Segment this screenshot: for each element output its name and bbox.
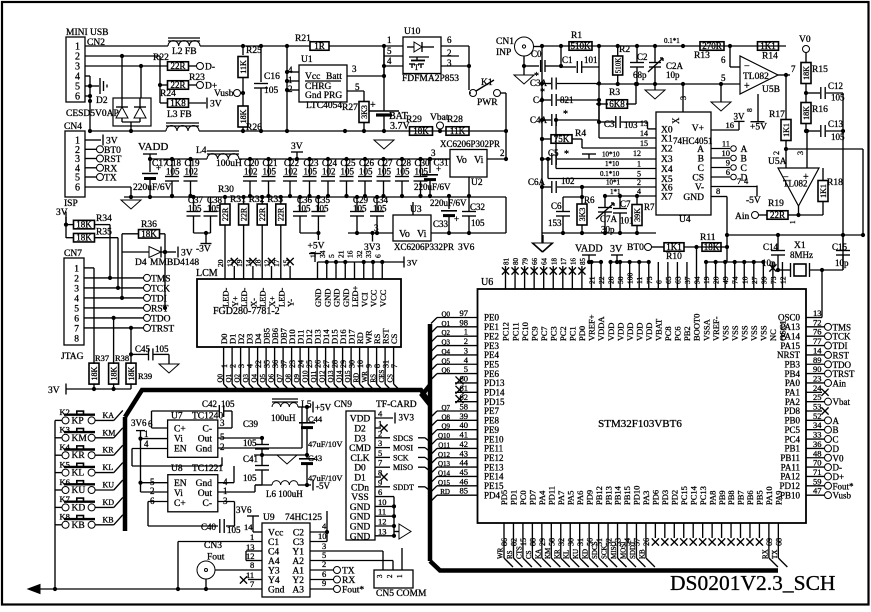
svg-text:1K8: 1K8	[170, 98, 186, 108]
svg-text:58: 58	[548, 538, 557, 546]
svg-text:105: 105	[166, 167, 180, 177]
svg-text:R1: R1	[571, 31, 582, 41]
svg-text:18K: 18K	[413, 126, 429, 136]
svg-text:VDD: VDD	[625, 323, 635, 341]
svg-text:Vo: Vo	[456, 155, 467, 166]
svg-text:4: 4	[74, 294, 79, 304]
svg-text:13: 13	[378, 526, 387, 536]
svg-text:3V6: 3V6	[131, 418, 147, 428]
svg-text:VSS: VSS	[351, 493, 368, 503]
svg-text:TX: TX	[104, 174, 117, 184]
ground CN1	[523, 56, 525, 75]
svg-text:TRST: TRST	[151, 324, 174, 334]
svg-text:PD4: PD4	[484, 490, 501, 500]
svg-text:Vbat: Vbat	[430, 113, 449, 123]
resistor R35 18K	[74, 233, 95, 242]
svg-text:D3: D3	[354, 434, 366, 444]
svg-text:5: 5	[387, 46, 392, 56]
svg-text:C33: C33	[433, 219, 449, 229]
analog rail y233	[348, 232, 393, 234]
svg-text:1K1: 1K1	[819, 184, 828, 198]
svg-text:C-: C-	[203, 499, 213, 509]
svg-text:KM: KM	[544, 547, 552, 559]
svg-text:PA9: PA9	[774, 491, 784, 505]
svg-text:R23: R23	[189, 73, 205, 83]
connector CN5 COMM	[374, 570, 413, 588]
svg-text:3V6: 3V6	[458, 243, 475, 253]
svg-text:102: 102	[244, 167, 258, 177]
svg-text:CN3: CN3	[204, 541, 222, 551]
svg-text:7: 7	[791, 64, 796, 74]
op-amp U5B TL082	[740, 56, 778, 94]
svg-text:X3: X3	[661, 155, 673, 165]
svg-text:R21: R21	[295, 34, 311, 44]
svg-text:KA: KA	[103, 411, 115, 420]
svg-text:220uF/6V: 220uF/6V	[133, 183, 172, 193]
svg-text:21: 21	[336, 250, 345, 258]
svg-text:VSS: VSS	[749, 325, 759, 341]
svg-text:12: 12	[633, 149, 641, 158]
wire attenuator left bus	[541, 46, 543, 233]
svg-text:6: 6	[148, 419, 153, 429]
wire JTAG TRST	[84, 327, 144, 329]
svg-text:VDD: VDD	[606, 323, 616, 341]
svg-text:KB: KB	[72, 521, 85, 531]
ground right of C45	[159, 364, 179, 373]
svg-text:VBAT: VBAT	[654, 318, 664, 341]
svg-text:Vi: Vi	[174, 489, 183, 499]
svg-text:5: 5	[74, 304, 79, 314]
svg-text:9: 9	[322, 578, 326, 588]
svg-text:Q8: Q8	[441, 413, 450, 421]
resistor R14 1K1	[758, 42, 779, 51]
svg-text:3V: 3V	[610, 244, 623, 255]
svg-text:SDCS: SDCS	[393, 434, 413, 443]
wire CN4 pin1 3V	[85, 139, 101, 141]
svg-text:C3: C3	[604, 119, 615, 129]
svg-text:3K3: 3K3	[578, 208, 587, 222]
svg-text:153: 153	[548, 218, 562, 228]
svg-text:22R: 22R	[770, 210, 785, 220]
svg-text:PD0: PD0	[577, 326, 587, 341]
svg-text:CN4: CN4	[64, 122, 82, 132]
svg-text:PB2: PB2	[682, 326, 692, 341]
svg-text:74HC4051: 74HC4051	[673, 136, 713, 146]
svg-text:D4: D4	[135, 258, 147, 268]
svg-text:R34: R34	[96, 214, 112, 224]
svg-text:22R: 22R	[277, 207, 286, 221]
capacitor C16 105	[260, 46, 262, 82]
svg-text:18K: 18K	[76, 220, 92, 230]
svg-text:68p: 68p	[633, 70, 647, 80]
svg-text:KM: KM	[72, 434, 88, 444]
wire input top net	[542, 45, 786, 47]
svg-text:Fout*: Fout*	[342, 586, 364, 596]
svg-text:105: 105	[263, 167, 277, 177]
wire JTAG TDO	[84, 317, 144, 319]
svg-text:18K: 18K	[76, 233, 92, 243]
svg-text:+5V: +5V	[308, 242, 325, 252]
svg-text:Q7: Q7	[441, 404, 450, 412]
svg-text:TCK: TCK	[151, 284, 170, 294]
svg-text:10p: 10p	[835, 258, 849, 268]
svg-text:VCC: VCC	[378, 289, 388, 307]
svg-text:Vi: Vi	[474, 155, 484, 166]
svg-text:LCM: LCM	[196, 268, 218, 279]
wire CN4 TX	[85, 176, 97, 178]
wire CN2 pin2	[85, 55, 160, 57]
svg-text:102: 102	[284, 167, 298, 177]
svg-text:3: 3	[431, 148, 436, 158]
svg-text:22R: 22R	[221, 207, 230, 221]
power tap VADD	[149, 154, 151, 159]
svg-text:7: 7	[737, 176, 741, 186]
svg-text:11: 11	[378, 507, 386, 517]
svg-text:11: 11	[722, 139, 730, 149]
svg-text:57: 57	[633, 538, 642, 546]
svg-text:10*1: 10*1	[606, 179, 621, 187]
rail y235	[727, 234, 863, 236]
svg-text:16: 16	[346, 250, 355, 258]
svg-text:9: 9	[726, 158, 730, 168]
svg-text:3: 3	[796, 151, 805, 155]
svg-text:8: 8	[378, 468, 382, 478]
svg-text:69: 69	[765, 538, 774, 546]
svg-text:R7: R7	[644, 202, 655, 212]
svg-text:TC1221: TC1221	[192, 464, 223, 474]
svg-text:BOOT0: BOOT0	[692, 314, 702, 341]
svg-text:5: 5	[378, 448, 382, 458]
svg-text:2: 2	[74, 274, 79, 284]
svg-text:105: 105	[243, 438, 257, 448]
svg-text:18K: 18K	[802, 106, 811, 120]
svg-text:2: 2	[500, 148, 505, 158]
svg-text:7: 7	[378, 458, 382, 468]
svg-text:FDFMA2P853: FDFMA2P853	[402, 74, 459, 84]
ground symbol mid	[121, 200, 141, 209]
svg-text:STM32F103VBT6: STM32F103VBT6	[598, 418, 682, 430]
svg-text:MISO: MISO	[393, 463, 413, 472]
svg-text:270R: 270R	[702, 41, 722, 51]
svg-text:Q12: Q12	[438, 451, 451, 459]
svg-text:Gnd: Gnd	[196, 479, 213, 489]
svg-text:85: 85	[460, 486, 469, 496]
svg-text:Q6: Q6	[441, 367, 450, 375]
svg-text:D-: D-	[205, 63, 215, 73]
svg-text:VREF+: VREF+	[587, 314, 597, 341]
svg-text:6: 6	[726, 167, 730, 177]
connector CN7 JTAG	[64, 258, 84, 345]
wire CN4 BT0	[85, 148, 97, 150]
svg-text:C5: C5	[548, 148, 559, 158]
svg-text:R27: R27	[342, 103, 358, 113]
svg-text:R14: R14	[762, 52, 778, 62]
svg-text:3K3: 3K3	[360, 105, 369, 119]
svg-text:C2: C2	[637, 52, 648, 62]
wire CN2 pins 4-6	[85, 75, 90, 77]
battery BAT 3.7V	[383, 46, 385, 111]
wire CN4 RX	[85, 167, 97, 169]
svg-text:Y1: Y1	[292, 548, 304, 558]
svg-text:105: 105	[304, 167, 318, 177]
inductor L2 FB	[168, 41, 200, 46]
svg-text:18K: 18K	[239, 109, 248, 123]
svg-text:Ain: Ain	[833, 378, 847, 388]
svg-text:KR: KR	[103, 446, 115, 455]
svg-text:6: 6	[75, 92, 80, 103]
svg-text:103: 103	[624, 120, 638, 130]
ground near U4 top right	[720, 84, 722, 102]
svg-text:KB: KB	[103, 515, 114, 524]
svg-text:3V3: 3V3	[399, 413, 415, 423]
svg-text:GND: GND	[350, 503, 371, 513]
ground rail y197	[124, 196, 506, 198]
svg-text:4: 4	[288, 65, 293, 75]
svg-text:-3V: -3V	[196, 245, 211, 255]
svg-text:16: 16	[569, 258, 577, 266]
svg-text:6K8: 6K8	[609, 99, 625, 109]
svg-text:C3: C3	[293, 538, 304, 548]
svg-text:18K: 18K	[109, 366, 118, 380]
svg-text:C42: C42	[202, 399, 217, 409]
svg-text:C1: C1	[268, 538, 279, 548]
svg-text:102: 102	[322, 167, 336, 177]
svg-text:Vi: Vi	[417, 229, 427, 240]
svg-text:+: +	[744, 81, 750, 92]
svg-text:19: 19	[235, 259, 244, 267]
svg-text:C13: C13	[828, 119, 844, 129]
svg-text:CN7: CN7	[64, 249, 82, 259]
svg-text:39K: 39K	[633, 208, 642, 222]
svg-text:KL: KL	[72, 469, 85, 479]
svg-text:KU: KU	[572, 549, 580, 559]
svg-text:29: 29	[538, 538, 547, 546]
svg-text:PC9: PC9	[529, 326, 539, 341]
svg-text:TX: TX	[771, 550, 779, 559]
svg-text:31: 31	[576, 538, 585, 546]
svg-text:18: 18	[550, 258, 558, 266]
svg-text:Q4: Q4	[441, 348, 450, 356]
svg-text:U6: U6	[481, 277, 493, 288]
svg-text:3: 3	[378, 438, 382, 448]
svg-text:13: 13	[640, 119, 648, 128]
wire JTAG RST	[84, 307, 144, 309]
svg-text:VSSA: VSSA	[701, 318, 711, 341]
svg-text:V0: V0	[799, 35, 811, 45]
svg-text:VDD: VDD	[644, 323, 654, 341]
svg-text:CLK: CLK	[351, 454, 370, 464]
svg-text:102: 102	[561, 176, 575, 186]
svg-text:Gnd: Gnd	[268, 586, 285, 596]
svg-text:CTS: CTS	[515, 546, 523, 559]
svg-text:11: 11	[309, 251, 318, 258]
svg-text:510K: 510K	[615, 58, 623, 74]
svg-text:*: *	[564, 149, 569, 160]
diode D2 CESD5V0AP	[113, 98, 151, 126]
svg-text:7: 7	[74, 324, 79, 334]
svg-text:U10: U10	[404, 27, 421, 37]
svg-text:17: 17	[272, 259, 281, 267]
svg-text:A4: A4	[268, 557, 280, 567]
svg-text:18K: 18K	[141, 229, 157, 239]
svg-text:LTC4054: LTC4054	[306, 101, 342, 111]
resistor R13 270R	[700, 42, 724, 51]
wire JTAG TDI	[84, 297, 144, 299]
svg-text:U5A: U5A	[768, 157, 787, 167]
svg-text:A2: A2	[292, 557, 304, 567]
svg-text:MINI USB: MINI USB	[66, 28, 109, 38]
svg-text:C-: C-	[203, 425, 213, 435]
svg-text:A: A	[741, 145, 748, 155]
svg-text:Vbat: Vbat	[833, 397, 851, 407]
svg-text:X: X	[671, 117, 681, 124]
svg-text:WR: WR	[497, 547, 505, 559]
svg-text:JTAG: JTAG	[61, 352, 84, 362]
svg-text:88: 88	[529, 538, 538, 546]
svg-text:Vusb: Vusb	[214, 89, 234, 99]
svg-text:2: 2	[150, 486, 155, 496]
svg-text:11K: 11K	[239, 60, 248, 74]
svg-text:A: A	[697, 145, 704, 155]
svg-text:CS: CS	[389, 333, 399, 344]
svg-text:32: 32	[557, 538, 566, 546]
svg-text:U4: U4	[679, 215, 691, 225]
svg-text:SCK: SCK	[601, 545, 609, 559]
svg-text:Vo: Vo	[399, 229, 410, 240]
capacitor C12 105	[804, 91, 808, 95]
svg-text:1*10: 1*10	[605, 160, 620, 168]
svg-text:PC8: PC8	[663, 326, 673, 341]
connector CN2 MINI USB	[66, 37, 85, 102]
svg-text:Out: Out	[198, 435, 213, 445]
svg-text:18: 18	[253, 259, 262, 267]
svg-text:11K: 11K	[450, 126, 466, 136]
svg-text:TL082: TL082	[743, 72, 769, 82]
svg-text:Q0: Q0	[441, 311, 450, 319]
svg-text:KR: KR	[553, 549, 561, 559]
svg-text:U9: U9	[263, 513, 275, 523]
svg-text:2: 2	[220, 442, 225, 452]
svg-text:R37: R37	[95, 353, 109, 363]
svg-text:R18: R18	[827, 178, 843, 188]
svg-text:C: C	[698, 164, 704, 174]
svg-text:R4: R4	[575, 129, 586, 139]
svg-text:VSS: VSS	[730, 325, 740, 341]
svg-text:KR: KR	[72, 451, 86, 461]
ground under battery	[374, 140, 394, 149]
svg-text:C12: C12	[828, 81, 843, 91]
svg-text:KL: KL	[563, 550, 571, 559]
svg-text:16: 16	[726, 120, 735, 130]
svg-text:CN5 COMM: CN5 COMM	[376, 589, 427, 599]
svg-text:R3: R3	[609, 88, 620, 98]
svg-text:821: 821	[560, 95, 574, 105]
svg-text:79: 79	[522, 258, 530, 266]
svg-text:C40: C40	[201, 522, 217, 532]
svg-text:22R: 22R	[239, 207, 248, 221]
svg-text:Fout: Fout	[207, 553, 225, 563]
wire opamp plus net y84	[596, 83, 740, 85]
svg-text:-5V: -5V	[316, 481, 330, 491]
svg-text:PC6: PC6	[673, 326, 683, 341]
jtag pullup wires	[109, 225, 111, 278]
svg-text:L6 100uH: L6 100uH	[266, 489, 303, 499]
svg-text:6: 6	[373, 254, 382, 258]
svg-text:+: +	[436, 164, 441, 174]
svg-text:C+: C+	[174, 425, 186, 435]
svg-text:VDD: VDD	[350, 415, 371, 425]
wire JTAG TMS	[84, 277, 144, 279]
svg-text:C39: C39	[243, 419, 259, 429]
resistor R23 22R	[159, 56, 161, 85]
svg-text:RS: RS	[506, 550, 514, 559]
svg-text:C7: C7	[620, 199, 631, 209]
svg-text:NC: NC	[768, 329, 778, 341]
svg-text:EN: EN	[174, 479, 187, 489]
mux U4 74HC4051	[656, 112, 711, 215]
svg-text:0.1*1: 0.1*1	[664, 37, 680, 45]
svg-text:105: 105	[378, 167, 392, 177]
svg-text:CDn: CDn	[351, 483, 369, 493]
svg-text:105: 105	[264, 86, 279, 96]
svg-text:C6: C6	[551, 201, 562, 211]
svg-text:3: 3	[374, 223, 379, 233]
svg-text:80: 80	[512, 258, 520, 266]
svg-text:3: 3	[376, 574, 384, 578]
svg-text:2: 2	[637, 178, 641, 187]
svg-text:4: 4	[144, 439, 149, 449]
svg-text:B: B	[741, 155, 747, 165]
svg-text:1: 1	[378, 419, 382, 429]
svg-text:PC1: PC1	[568, 326, 578, 341]
svg-text:5: 5	[220, 432, 225, 442]
mosfet U10 FDFMA2P853	[403, 37, 441, 74]
svg-text:Vi: Vi	[174, 435, 183, 445]
svg-text:BT0: BT0	[627, 243, 644, 253]
svg-text:51: 51	[595, 538, 604, 546]
svg-text:C32: C32	[470, 202, 485, 212]
svg-text:3V: 3V	[210, 100, 222, 110]
svg-text:26: 26	[642, 538, 651, 546]
svg-text:KL: KL	[103, 463, 114, 472]
svg-text:V+: V+	[692, 124, 704, 134]
svg-text:105: 105	[155, 344, 169, 354]
svg-text:Q1: Q1	[441, 320, 450, 328]
svg-text:30: 30	[566, 538, 575, 546]
svg-text:CMD: CMD	[349, 444, 371, 454]
svg-text:R13: R13	[694, 51, 710, 61]
svg-text:15: 15	[519, 538, 528, 546]
svg-text:3: 3	[74, 284, 79, 294]
svg-text:C+: C+	[174, 499, 186, 509]
svg-text:TX: TX	[342, 567, 355, 577]
svg-text:SDDT: SDDT	[393, 483, 414, 492]
svg-text:R39: R39	[138, 371, 152, 381]
svg-text:Q15: Q15	[438, 479, 451, 487]
bottom ground rail	[28, 585, 40, 594]
svg-text:86: 86	[500, 538, 509, 546]
svg-text:105: 105	[227, 525, 241, 535]
svg-text:0.1*10: 0.1*10	[600, 170, 620, 178]
svg-text:MMBD4148: MMBD4148	[150, 258, 199, 268]
svg-text:6: 6	[378, 487, 382, 497]
svg-text:Y4: Y4	[268, 576, 280, 586]
svg-text:RD: RD	[440, 488, 450, 496]
svg-text:18K: 18K	[802, 66, 811, 80]
svg-text:GND: GND	[350, 523, 371, 533]
svg-text:Y3: Y3	[268, 567, 280, 577]
svg-text:V-: V-	[695, 183, 704, 193]
